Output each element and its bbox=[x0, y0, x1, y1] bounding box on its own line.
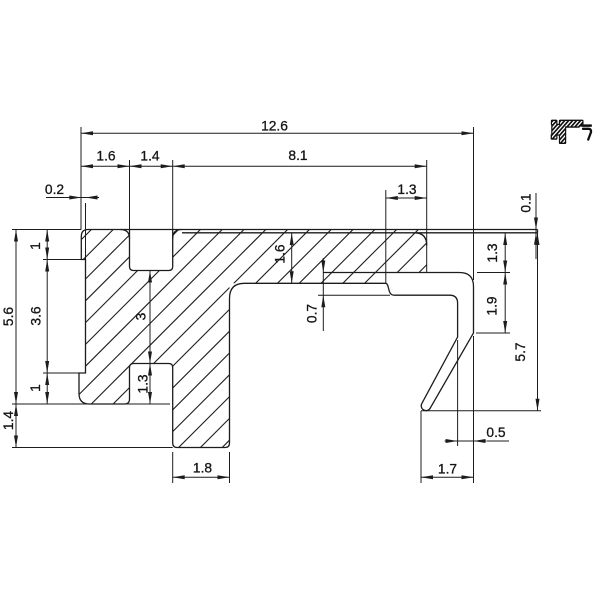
thumbnail icon of profile (top right) bbox=[485, 88, 600, 168]
svg-text:1.9: 1.9 bbox=[485, 296, 500, 316]
svg-text:1.3: 1.3 bbox=[397, 182, 417, 197]
dimension 1.3 top right bbox=[386, 197, 427, 199]
svg-text:5.6: 5.6 bbox=[1, 307, 16, 327]
svg-text:3.6: 3.6 bbox=[29, 306, 44, 326]
ext x85.5 bbox=[85, 203, 87, 260]
notch top-left outer fillet bbox=[121, 230, 130, 239]
ext y410.7 bbox=[421, 410, 541, 412]
ext x172.7 low bbox=[172, 452, 174, 483]
body right edge fillet under lip bbox=[415, 233, 427, 246]
ext x81 bbox=[80, 127, 82, 230]
svg-text:0.7: 0.7 bbox=[305, 304, 320, 323]
svg-text:1.4: 1.4 bbox=[140, 149, 160, 164]
svg-text:12.6: 12.6 bbox=[261, 119, 288, 134]
dimension 1.8 foot width bbox=[173, 476, 230, 478]
dimension 0.5 leg thickness bbox=[445, 440, 487, 442]
dimension 1.6 web thickness bbox=[291, 233, 293, 283]
svg-text:1.4: 1.4 bbox=[1, 411, 16, 431]
svg-text:1.7: 1.7 bbox=[438, 462, 457, 477]
ext x129.5 bbox=[129, 160, 131, 230]
ext y295 left bbox=[318, 294, 390, 296]
ext x172.7 bbox=[172, 160, 174, 230]
dimension 1.4 notch width bbox=[130, 165, 173, 167]
dimension 5.7 right height bbox=[537, 233, 539, 411]
ext x385.8 bbox=[385, 190, 387, 283]
svg-text:1.8: 1.8 bbox=[193, 461, 213, 476]
ext x473.5 bottom bbox=[473, 336, 475, 483]
dimension 1 upper step height bbox=[46, 230, 48, 260]
svg-text:1: 1 bbox=[28, 384, 43, 392]
dimension 0.1 lip thickness bbox=[535, 193, 537, 259]
svg-text:8.1: 8.1 bbox=[288, 148, 307, 163]
ext y404 bbox=[12, 403, 170, 405]
ext y259.5 bbox=[43, 259, 86, 261]
profile 0.1 lip bottom line bbox=[182, 232, 538, 234]
lip tip edge bbox=[537, 230, 539, 233]
svg-text:1.6: 1.6 bbox=[96, 149, 116, 164]
ext y229.5 bbox=[12, 229, 81, 231]
svg-text:1.3: 1.3 bbox=[485, 243, 500, 263]
dimension 5.6 left height bbox=[15, 230, 17, 405]
svg-text:1.3: 1.3 bbox=[136, 374, 151, 394]
ext x473.5 top bbox=[473, 127, 475, 280]
ext x421 bbox=[420, 411, 422, 483]
profile main outline (left edge, bottom, opening, hook arm) bbox=[79, 230, 474, 448]
dimension 1 lower step height bbox=[46, 373, 48, 404]
svg-text:0.2: 0.2 bbox=[45, 182, 64, 197]
dimension 12.6 overall width bbox=[81, 132, 474, 134]
profile top surface bbox=[88, 229, 538, 231]
svg-text:3: 3 bbox=[134, 312, 149, 320]
svg-text:1.6: 1.6 bbox=[273, 244, 288, 264]
svg-text:5.7: 5.7 bbox=[513, 342, 528, 361]
ext x426.7 bbox=[426, 160, 428, 273]
dimension 1.9 leg length bbox=[504, 273, 506, 334]
dimension 3.6 left middle height bbox=[46, 260, 48, 374]
dimension 1.4 foot depth bbox=[15, 404, 17, 448]
dimension 1.6 left wall width bbox=[81, 165, 130, 167]
svg-text:0.5: 0.5 bbox=[486, 425, 506, 440]
dimension 3 web inner height bbox=[149, 271, 151, 364]
svg-text:1: 1 bbox=[28, 242, 43, 250]
dimension 1.3 air gap bbox=[504, 233, 506, 273]
dimension 1.7 hook tip offset bbox=[421, 476, 474, 478]
ext x229.5 low bbox=[229, 452, 231, 483]
dimension 0.7 arm thickness bbox=[322, 258, 324, 331]
ext x457.6 bbox=[457, 340, 459, 446]
ext y272.5 right bbox=[477, 272, 510, 274]
ext y333 right bbox=[476, 332, 510, 334]
notch walls and bottom bbox=[130, 230, 173, 271]
dimension 1.3 pocket depth bbox=[149, 364, 151, 405]
svg-text:0.1: 0.1 bbox=[519, 193, 534, 212]
dimension 0.2 left step bbox=[46, 197, 99, 199]
notch top-right outer fillet bbox=[173, 230, 182, 239]
ext y447.5 bbox=[12, 447, 173, 449]
ext y373 bbox=[43, 372, 79, 374]
dimension 8.1 web width bbox=[173, 165, 427, 167]
